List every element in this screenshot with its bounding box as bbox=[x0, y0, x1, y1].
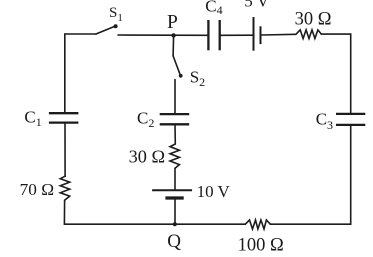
svg-text:30 Ω: 30 Ω bbox=[295, 10, 332, 30]
svg-text:C3: C3 bbox=[316, 110, 333, 132]
svg-text:70 Ω: 70 Ω bbox=[20, 180, 54, 199]
svg-text:S1: S1 bbox=[109, 5, 123, 24]
svg-text:P: P bbox=[167, 12, 178, 33]
svg-text:30 Ω: 30 Ω bbox=[129, 147, 165, 167]
svg-text:C1: C1 bbox=[24, 108, 41, 130]
svg-text:5 V: 5 V bbox=[244, 0, 269, 11]
svg-text:C2: C2 bbox=[137, 108, 154, 130]
svg-text:Q: Q bbox=[167, 231, 181, 252]
svg-text:100 Ω: 100 Ω bbox=[238, 236, 284, 256]
svg-text:C4: C4 bbox=[205, 0, 222, 17]
svg-text:10 V: 10 V bbox=[197, 182, 231, 201]
svg-text:S2: S2 bbox=[190, 67, 205, 89]
